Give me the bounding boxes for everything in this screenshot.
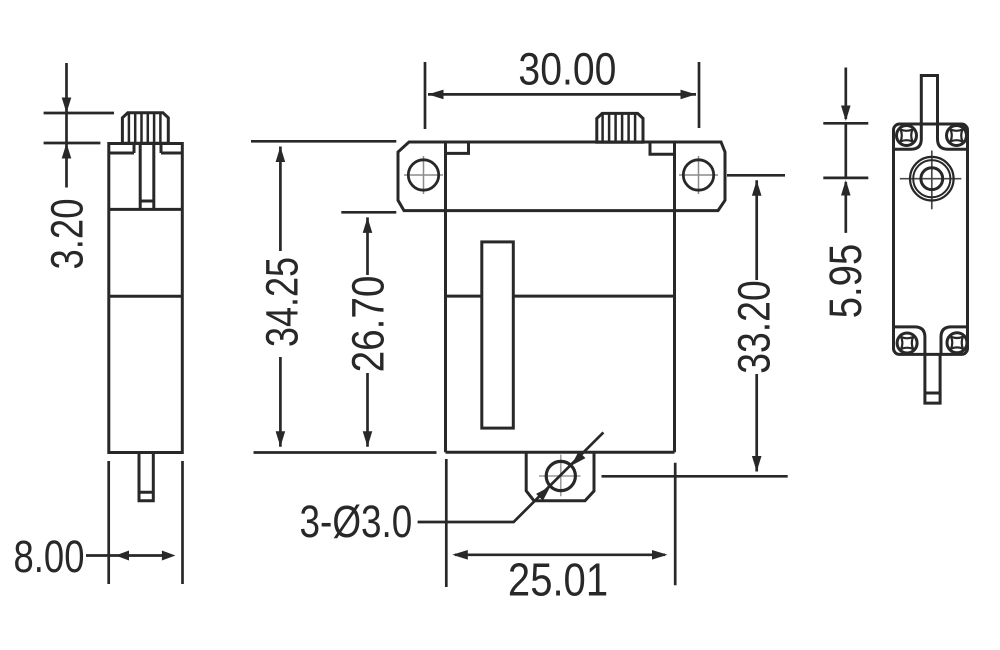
right view bottom-left pocket: [894, 327, 925, 355]
right view screw bottom-right: [947, 333, 967, 353]
center view gear: [597, 113, 643, 142]
right view screw bottom-left: [897, 333, 917, 353]
center view gear splines: [603, 113, 636, 142]
right view top shaft: [921, 76, 937, 125]
dim 34.25 top extension: [251, 140, 396, 143]
dim 25.01 arrow left: [452, 550, 468, 560]
left view body: [109, 144, 183, 453]
svg-text:26.70: 26.70: [343, 276, 393, 373]
center view flange outline: [398, 142, 725, 211]
right view bottom shaft: [925, 354, 940, 403]
dim 30.00 extension right: [698, 62, 701, 128]
dim 34.25 arrow down: [276, 431, 286, 447]
right view boss inner: [921, 168, 943, 190]
center view body bottom: [446, 451, 675, 454]
leader arrow upper: [571, 451, 585, 465]
center view slot: [482, 242, 514, 428]
left view output shaft: [140, 144, 154, 210]
dim 26.70 arrow down: [363, 431, 373, 447]
left view section line upper: [109, 208, 183, 211]
svg-text:8.00: 8.00: [14, 531, 85, 582]
dim 33.20 line: [755, 180, 758, 471]
right view boss outer: [910, 157, 954, 201]
dim 8.00 line: [86, 554, 166, 557]
dim 3.20 tick top: [44, 112, 114, 115]
dim 26.70 arrow up: [363, 217, 373, 233]
center view flange hole left: [408, 160, 438, 190]
center view bottom tab: [526, 452, 594, 501]
dim 3.20 tick bottom: [44, 142, 101, 145]
dim 25.01 arrow right: [652, 550, 668, 560]
center view body sides: [446, 142, 675, 452]
right view screw top-left: [897, 126, 917, 146]
center view tab hole crosshair: [539, 455, 581, 497]
dim 5.95 tick bottom: [823, 177, 868, 180]
dim 30.00 extension left: [424, 62, 427, 129]
dim 33.20 arrow up: [752, 180, 762, 196]
center view mid line: [446, 295, 675, 298]
dim 25.01 extension right: [674, 463, 677, 586]
dim 30.00 line: [428, 93, 696, 96]
dim 3.20 arrow down: [62, 98, 72, 114]
center view flange left notch: [446, 142, 469, 153]
dim 8.00 arrow right: [162, 551, 176, 561]
dim 26.70 top extension: [341, 211, 396, 214]
dim 30.00 arrow left: [428, 90, 444, 100]
dim 33.20 bottom extension: [602, 475, 788, 478]
leader 3-d3.0: [418, 432, 604, 522]
center bottom extension line: [254, 451, 437, 454]
dim 3.20 line: [65, 63, 68, 188]
dim 30.00 arrow right: [681, 90, 697, 100]
right view boss ring: [913, 160, 950, 197]
center view flange hole right crosshair: [679, 156, 718, 194]
dim 5.95 arrow up: [841, 180, 851, 196]
dim 8.00 extension left: [107, 461, 110, 584]
right view top-right pocket: [938, 124, 968, 149]
dim 34.25 line: [279, 147, 282, 447]
right view top-left pocket: [894, 124, 922, 149]
dim 33.20 arrow down: [752, 456, 762, 472]
dim 25.01 line: [455, 553, 665, 556]
dim 5.95 arrow down: [841, 106, 851, 122]
svg-text:5.95: 5.95: [820, 244, 871, 318]
svg-text:34.25: 34.25: [257, 257, 308, 347]
left view bottom tab: [139, 453, 153, 501]
dim 8.00 extension right: [181, 461, 184, 584]
svg-text:3-Ø3.0: 3-Ø3.0: [300, 496, 413, 546]
left view gear: [122, 113, 168, 143]
right view boss crosshair: [900, 151, 962, 210]
right view screw top-right: [947, 126, 967, 146]
dim 5.95 tick top: [823, 122, 868, 125]
right view top-right corner arc: [956, 124, 968, 136]
svg-text:33.20: 33.20: [729, 280, 779, 373]
dim 34.25 arrow up: [276, 147, 286, 163]
dim 25.01 extension left: [445, 459, 448, 587]
dim 33.20 top extension: [727, 174, 785, 177]
svg-text:3.20: 3.20: [42, 199, 93, 270]
dim 5.95 line: [844, 68, 847, 233]
right view bottom-right pocket: [941, 327, 968, 355]
center view flange hole right: [683, 160, 713, 190]
svg-text:30.00: 30.00: [518, 44, 616, 94]
center view tab hole: [546, 461, 575, 490]
left view section line mid: [109, 295, 183, 298]
svg-text:25.01: 25.01: [508, 555, 608, 606]
right view body: [894, 124, 968, 354]
leader arrow lower: [536, 486, 550, 500]
dim 3.20 arrow up: [62, 143, 72, 159]
left view gear splines: [129, 113, 161, 143]
dim 8.00 arrow left: [116, 551, 130, 561]
dim 26.70 line: [366, 217, 369, 446]
center view flange hole left crosshair: [404, 156, 443, 194]
left view collar line: [109, 144, 183, 154]
